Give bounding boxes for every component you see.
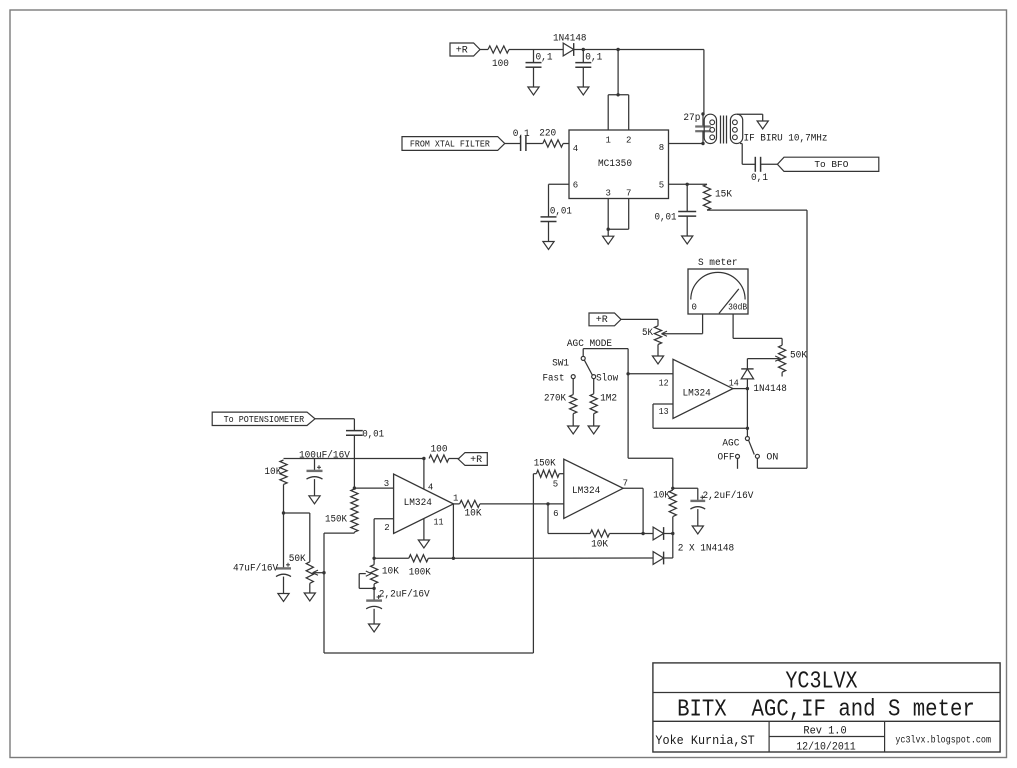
wire <box>703 50 705 115</box>
title text rev <box>803 726 846 738</box>
wire (pin 5) <box>669 183 708 185</box>
ground (50K pot) <box>304 593 315 601</box>
wire <box>505 143 521 145</box>
wire (output to switch) <box>746 389 748 437</box>
resistor 270K (fast decay) <box>544 379 577 426</box>
resistor 150K (feedback amp 2) <box>533 459 563 478</box>
svg-text:50K: 50K <box>289 554 306 565</box>
svg-text:12: 12 <box>659 379 669 389</box>
ground (pin 11) <box>418 540 429 548</box>
svg-text:SW1: SW1 <box>552 358 569 369</box>
capacitor 2,2uF/16V (AGC timing 2) <box>690 490 753 526</box>
node (feedback / switch node) <box>746 427 749 430</box>
wire (junction down to AGC amp) <box>628 374 673 489</box>
wire (secondary bottom) <box>740 144 755 165</box>
resistor 100 (to +R, op-amp supply) <box>429 445 449 462</box>
svg-text:30dB: 30dB <box>728 303 748 313</box>
wire (S meter right terminal) <box>733 314 782 345</box>
svg-text:27p: 27p <box>683 113 700 124</box>
label AGC <box>722 439 739 450</box>
node (wiper junction) <box>322 571 325 574</box>
node (27p bottom / pin 8) <box>701 142 704 145</box>
svg-text:To BFO: To BFO <box>814 160 848 170</box>
title block frame <box>653 663 1000 752</box>
node (AGC mode junction) <box>626 372 629 375</box>
transformer T1 IF BIRU 10,7MHz primary winding <box>704 114 716 143</box>
svg-text:13: 13 <box>659 407 669 417</box>
power flag +R (op-amp supply) <box>458 453 487 466</box>
ground (2,2uF cap 1) <box>369 624 380 632</box>
node (pin 2 node) <box>372 557 375 560</box>
wire (secondary top to ground) <box>737 114 763 121</box>
ground (pin 5 cap) <box>682 236 693 244</box>
ground (transformer secondary) <box>757 121 768 129</box>
svg-text:0,1: 0,1 <box>536 53 553 64</box>
node (10K pot bottom) <box>372 587 375 590</box>
svg-text:To POTENSIOMETER: To POTENSIOMETER <box>224 415 305 425</box>
wire (pin 8) <box>669 143 704 145</box>
wire <box>563 143 569 145</box>
svg-text:50K: 50K <box>790 351 807 362</box>
ground (first 0,1 cap) <box>528 87 539 95</box>
svg-text:150K: 150K <box>325 515 347 526</box>
node (rail / pin 4) <box>422 457 425 460</box>
svg-text:0: 0 <box>692 302 697 312</box>
capacitor 0,01 (pin 5 filter) <box>655 184 697 236</box>
wire (pin 4 feed) <box>423 459 425 490</box>
capacitor 0,1 (input coupling) <box>513 129 530 151</box>
wire <box>643 533 653 535</box>
net flag FROM XTAL FILTER <box>402 137 505 151</box>
ground (2,2uF cap 2) <box>692 526 703 534</box>
svg-text:10K: 10K <box>264 467 281 478</box>
svg-text:47uF/16V: 47uF/16V <box>233 563 278 575</box>
svg-text:0,1: 0,1 <box>513 129 530 140</box>
title text date <box>796 742 856 754</box>
wire (output down to 100K) <box>452 504 454 558</box>
svg-text:1M2: 1M2 <box>600 394 617 405</box>
wire (50K wiper to bottom rail) <box>313 572 324 574</box>
ground (270K) <box>568 426 579 434</box>
svg-text:220: 220 <box>539 129 556 140</box>
node (top rail to pins 1-2) <box>616 48 619 51</box>
svg-text:ON: ON <box>766 453 778 464</box>
svg-text:YC3LVX: YC3LVX <box>785 669 857 696</box>
op-amp U2c LM324 (S meter driver) <box>659 359 739 418</box>
potentiometer 5K (meter zero) <box>642 326 667 356</box>
wire (pin 2 loop) <box>374 519 394 559</box>
svg-text:Slow: Slow <box>596 373 618 385</box>
wire <box>664 533 673 535</box>
svg-text:11: 11 <box>434 518 444 528</box>
node (output 7 node) <box>641 532 644 535</box>
svg-text:1N4148: 1N4148 <box>553 34 587 45</box>
svg-text:FROM XTAL FILTER: FROM XTAL FILTER <box>410 139 491 149</box>
svg-text:LM324: LM324 <box>404 498 432 509</box>
switch SW1 (AGC MODE) <box>543 356 619 384</box>
title text BITX AGC,IF and S meter <box>677 697 975 724</box>
svg-text:7: 7 <box>626 189 631 199</box>
svg-text:1: 1 <box>605 136 610 146</box>
resistor 220 (input) <box>539 129 563 148</box>
wire (to clamp diode) <box>453 557 653 559</box>
svg-text:Yoke Kurnia,ST: Yoke Kurnia,ST <box>655 733 754 748</box>
wire <box>449 458 460 460</box>
wire (output pin 1) <box>453 503 459 505</box>
wire <box>480 503 564 505</box>
meter M1 S meter <box>688 258 748 314</box>
resistor 1M2 (slow decay) <box>590 379 617 426</box>
svg-text:10K: 10K <box>591 540 608 551</box>
wire (pin 13 feedback loop) <box>653 404 747 428</box>
wire <box>610 533 644 535</box>
svg-text:yc3lvx.blogspot.com: yc3lvx.blogspot.com <box>895 735 991 747</box>
rail 100uF/16V label <box>299 449 350 461</box>
wire (diode to 50K wiper) <box>747 356 780 361</box>
svg-text:2: 2 <box>626 136 631 146</box>
potentiometer 10K (gain set) <box>359 558 399 600</box>
svg-text:0,01: 0,01 <box>362 430 384 441</box>
wire (to timing cap 2) <box>673 488 698 501</box>
ground (second 0,1 cap) <box>578 87 589 95</box>
wire (ON contact to AGC rail) <box>757 458 807 468</box>
node (top rail / second 0,1 cap) <box>582 48 585 51</box>
resistor 10K (feedback amp 2) <box>590 530 609 551</box>
svg-text:270K: 270K <box>544 394 566 405</box>
capacitor 100uF/16V (rail filter) <box>307 459 323 496</box>
wire (bottom rail) <box>324 474 533 653</box>
svg-text:7: 7 <box>623 479 628 489</box>
svg-text:2 X 1N4148: 2 X 1N4148 <box>678 543 735 554</box>
wire (SW1 pole to junction) <box>583 349 628 374</box>
node (100K / output node) <box>452 557 455 560</box>
svg-text:10K: 10K <box>653 491 670 502</box>
svg-text:2,2uF/16V: 2,2uF/16V <box>703 490 754 502</box>
wire <box>574 49 704 51</box>
power flag +R (S meter zero pot) <box>589 313 621 326</box>
node (pin 6 node) <box>546 502 549 505</box>
node (detector output) <box>671 532 674 535</box>
node (detector top) <box>671 487 674 490</box>
ground (pin 6 cap) <box>543 242 554 250</box>
wire <box>315 419 354 431</box>
wire (reference rail) <box>284 458 424 460</box>
resistor 100 (top, from +R) <box>488 46 509 70</box>
capacitor 47uF/16V (tap filter) <box>233 513 291 594</box>
wire <box>480 49 488 51</box>
wire <box>664 517 673 558</box>
node (pins 1-2 jumper) <box>616 93 619 96</box>
svg-text:12/10/2011: 12/10/2011 <box>796 742 856 754</box>
wire (junction to pin 12) <box>628 373 673 375</box>
svg-text:OFF: OFF <box>718 453 735 464</box>
svg-text:LM324: LM324 <box>572 486 600 497</box>
title block divider 2 <box>653 720 1000 722</box>
svg-text:1N4148: 1N4148 <box>753 384 787 395</box>
op-amp U2a LM324 (AGC amplifier 1) <box>384 474 459 533</box>
svg-text:5K: 5K <box>642 328 653 339</box>
ground (100uF cap) <box>309 496 320 504</box>
svg-text:6: 6 <box>553 509 558 519</box>
capacitor 2,2uF/16V (AGC timing 1) <box>366 588 429 624</box>
title text author <box>655 733 754 748</box>
node (pin 3 ground junction) <box>607 228 610 231</box>
potentiometer 50K (meter sensitivity) <box>779 345 808 376</box>
power flag +R (top left) <box>450 43 480 56</box>
svg-text:0,01: 0,01 <box>550 206 572 217</box>
svg-text:14: 14 <box>729 378 739 388</box>
node (pin 5 / 0,01 cap) <box>686 183 689 186</box>
svg-text:LM324: LM324 <box>683 388 711 399</box>
capacitor 0,01 (pin 6 decoupling) <box>541 206 572 241</box>
svg-text:100uF/16V: 100uF/16V <box>299 449 350 461</box>
wire (output pin 7) <box>623 488 643 533</box>
resistor 150K (divider) <box>325 489 358 533</box>
svg-text:AGC: AGC <box>722 439 739 450</box>
svg-text:IF BIRU 10,7MHz: IF BIRU 10,7MHz <box>744 133 828 144</box>
svg-text:3: 3 <box>605 189 610 199</box>
svg-text:0,01: 0,01 <box>655 212 677 223</box>
ground (5K pot) <box>652 356 663 364</box>
ground (1M2) <box>588 426 599 434</box>
svg-text:4: 4 <box>573 144 578 154</box>
capacitor 0,1 (first bypass at top) <box>526 50 553 88</box>
wire (pin 6 feedback down) <box>548 504 590 534</box>
wire (pin 6) <box>549 184 570 217</box>
title text YC3LVX <box>785 669 857 696</box>
IC U1 MC1350 <box>569 130 669 199</box>
svg-text:2,2uF/16V: 2,2uF/16V <box>379 588 430 600</box>
svg-text:5: 5 <box>553 480 558 490</box>
svg-text:8: 8 <box>659 143 664 153</box>
diode 1N4148 (detector 2) <box>653 552 664 565</box>
svg-text:5: 5 <box>659 181 664 191</box>
ground (47uF cap) <box>278 594 289 602</box>
diode 1N4148 (meter series) <box>741 359 787 395</box>
wire (pin 14 output) <box>733 388 748 390</box>
resistor 10K (output 1) <box>460 500 482 519</box>
svg-text:10K: 10K <box>382 566 399 577</box>
switch AGC ON/OFF <box>718 437 779 469</box>
op-amp U2b LM324 (AGC amplifier 2) <box>553 459 628 519</box>
diode 1N4148 (top, series) <box>553 34 587 56</box>
svg-text:+R: +R <box>596 315 608 326</box>
svg-text:0,1: 0,1 <box>751 173 768 184</box>
wire (S meter left terminal) <box>663 314 703 334</box>
capacitor 27p (across IF transformer primary) <box>683 113 710 144</box>
svg-text:+R: +R <box>456 45 468 56</box>
svg-text:2: 2 <box>384 523 389 533</box>
svg-text:6: 6 <box>573 181 578 191</box>
resistor 15K (AGC feed) <box>703 184 732 210</box>
wire (pin 11 to ground) <box>423 518 425 540</box>
svg-text:10K: 10K <box>465 509 482 520</box>
resistor 100K (feedback) <box>374 555 453 579</box>
node (27p top) <box>701 112 704 115</box>
svg-text:100: 100 <box>492 59 509 70</box>
svg-text:4: 4 <box>428 482 433 492</box>
wire <box>526 143 543 145</box>
potentiometer 50K (AGC set) <box>289 554 318 593</box>
wire (15K to AGC rail) <box>707 210 807 468</box>
wire (to pin 3) <box>354 487 393 489</box>
diode 1N4148 (detector 1) <box>653 527 664 540</box>
capacitor 0,1 (second bypass at top) <box>575 50 602 88</box>
label 2 X 1N4148 <box>678 543 735 554</box>
net flag To BFO <box>777 157 878 171</box>
node (10K / 50K divider tap) <box>282 511 285 514</box>
transformer T1 secondary winding <box>730 114 742 143</box>
resistor 10K (detector load) <box>653 490 676 517</box>
wire (150K to 50K wiper line) <box>324 533 354 653</box>
svg-text:150K: 150K <box>534 459 556 470</box>
capacitor 0,01 (AGC line) <box>346 430 384 489</box>
net flag To POTENSIOMETER <box>212 412 315 425</box>
svg-text:S meter: S meter <box>698 258 738 269</box>
wire (jumper to MC1350 pins 1 and 2) <box>608 95 629 130</box>
svg-text:Rev 1.0: Rev 1.0 <box>803 726 846 738</box>
svg-text:1: 1 <box>453 494 458 504</box>
ground (pins 3,7) <box>603 236 614 244</box>
svg-text:Fast: Fast <box>543 374 565 385</box>
node (output 14) <box>746 387 749 390</box>
wire (tap to 50K pot) <box>284 513 310 562</box>
transformer label <box>744 133 828 144</box>
capacitor 0,1 (BFO coupling) <box>751 157 768 184</box>
svg-text:15K: 15K <box>715 190 732 201</box>
svg-text:+R: +R <box>470 455 482 466</box>
transformer T1 core <box>721 116 727 144</box>
svg-text:100K: 100K <box>409 568 431 579</box>
svg-text:MC1350: MC1350 <box>598 159 632 170</box>
wire <box>761 163 778 165</box>
node (pin 3 junction) <box>353 486 356 489</box>
title text url <box>895 735 991 747</box>
svg-text:BITX AGC,IF and S meter: BITX AGC,IF and S meter <box>677 697 975 724</box>
wire <box>621 319 658 325</box>
wire <box>617 50 619 95</box>
label AGC MODE <box>567 339 612 350</box>
svg-text:0,1: 0,1 <box>585 53 602 64</box>
wire <box>509 49 563 51</box>
wire (pins 3 and 7 to ground) <box>608 199 629 237</box>
svg-text:100: 100 <box>431 445 448 456</box>
title block divider 1 <box>653 692 1000 694</box>
svg-text:3: 3 <box>384 479 389 489</box>
title block row3 dividers <box>769 721 885 752</box>
resistor 10K (rail upper divider) <box>264 460 287 513</box>
